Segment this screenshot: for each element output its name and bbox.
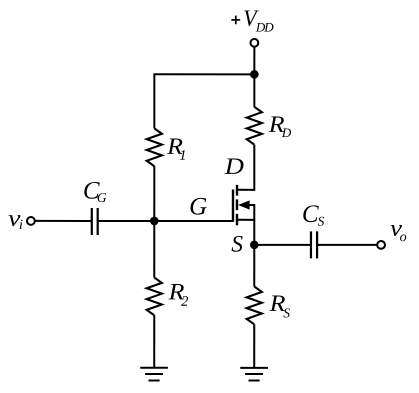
svg-text:S: S	[231, 232, 243, 258]
transistor Q1 gate bar	[232, 190, 234, 222]
label R2	[168, 279, 189, 309]
label vo	[390, 216, 407, 245]
svg-text:D: D	[281, 125, 292, 140]
resistor RS	[247, 287, 262, 325]
label CG	[83, 177, 107, 205]
svg-text:S: S	[318, 214, 325, 229]
wire R2 to ground	[153, 315, 155, 368]
svg-text:1: 1	[179, 148, 186, 164]
transistor Q1 drain stub	[237, 189, 255, 191]
resistor RD	[247, 107, 262, 145]
capacitor CS	[311, 231, 317, 258]
wire vi to CG	[35, 220, 91, 222]
svg-text:DD: DD	[255, 20, 274, 35]
label R1	[166, 134, 186, 164]
terminal vo	[377, 241, 385, 249]
svg-text:o: o	[400, 230, 407, 245]
label +VDD	[231, 6, 274, 35]
wire CS to vo	[317, 244, 377, 246]
svg-text:D: D	[224, 154, 244, 180]
svg-text:G: G	[189, 193, 207, 220]
wire gate node to MOSFET gate	[154, 220, 233, 222]
wire top horizontal	[153, 73, 255, 75]
transistor Q1 channel dash bottom	[236, 214, 238, 225]
svg-text:i: i	[19, 218, 23, 233]
resistor R1	[147, 128, 162, 166]
wire VDD junction to RD	[253, 74, 255, 106]
node G junction	[150, 217, 159, 226]
transistor Q1 channel dash middle	[236, 199, 238, 210]
label CS	[302, 201, 325, 229]
resistor R2	[147, 277, 162, 315]
wire R2 upper lead	[153, 221, 155, 278]
node VDD junction	[250, 70, 259, 79]
wire S to RS	[253, 245, 255, 287]
wire source vertical	[253, 205, 255, 245]
wire R1 to gate node	[153, 166, 155, 221]
label RD	[268, 112, 292, 140]
svg-text:G: G	[97, 190, 107, 205]
wire R1 upper lead	[153, 74, 155, 128]
ground right	[240, 368, 268, 381]
wire S to CS	[254, 244, 311, 246]
transistor Q1 body arrow	[238, 200, 255, 209]
label vi	[8, 206, 23, 233]
label RS	[269, 291, 291, 321]
wire RD to drain corner	[253, 145, 255, 190]
transistor Q1 source stub	[237, 219, 255, 221]
terminal vi	[27, 217, 35, 225]
wire CG to gate node	[98, 220, 155, 222]
wire RS to ground	[253, 324, 255, 368]
transistor Q1 channel dash top	[236, 185, 238, 196]
terminal VDD	[250, 39, 258, 47]
svg-text:C: C	[302, 201, 319, 228]
svg-text:S: S	[283, 305, 290, 320]
ground left	[140, 368, 168, 381]
svg-text:2: 2	[181, 294, 188, 310]
node S junction	[250, 241, 259, 250]
capacitor CG	[92, 208, 98, 235]
wire VDD terminal to junction	[253, 47, 255, 74]
